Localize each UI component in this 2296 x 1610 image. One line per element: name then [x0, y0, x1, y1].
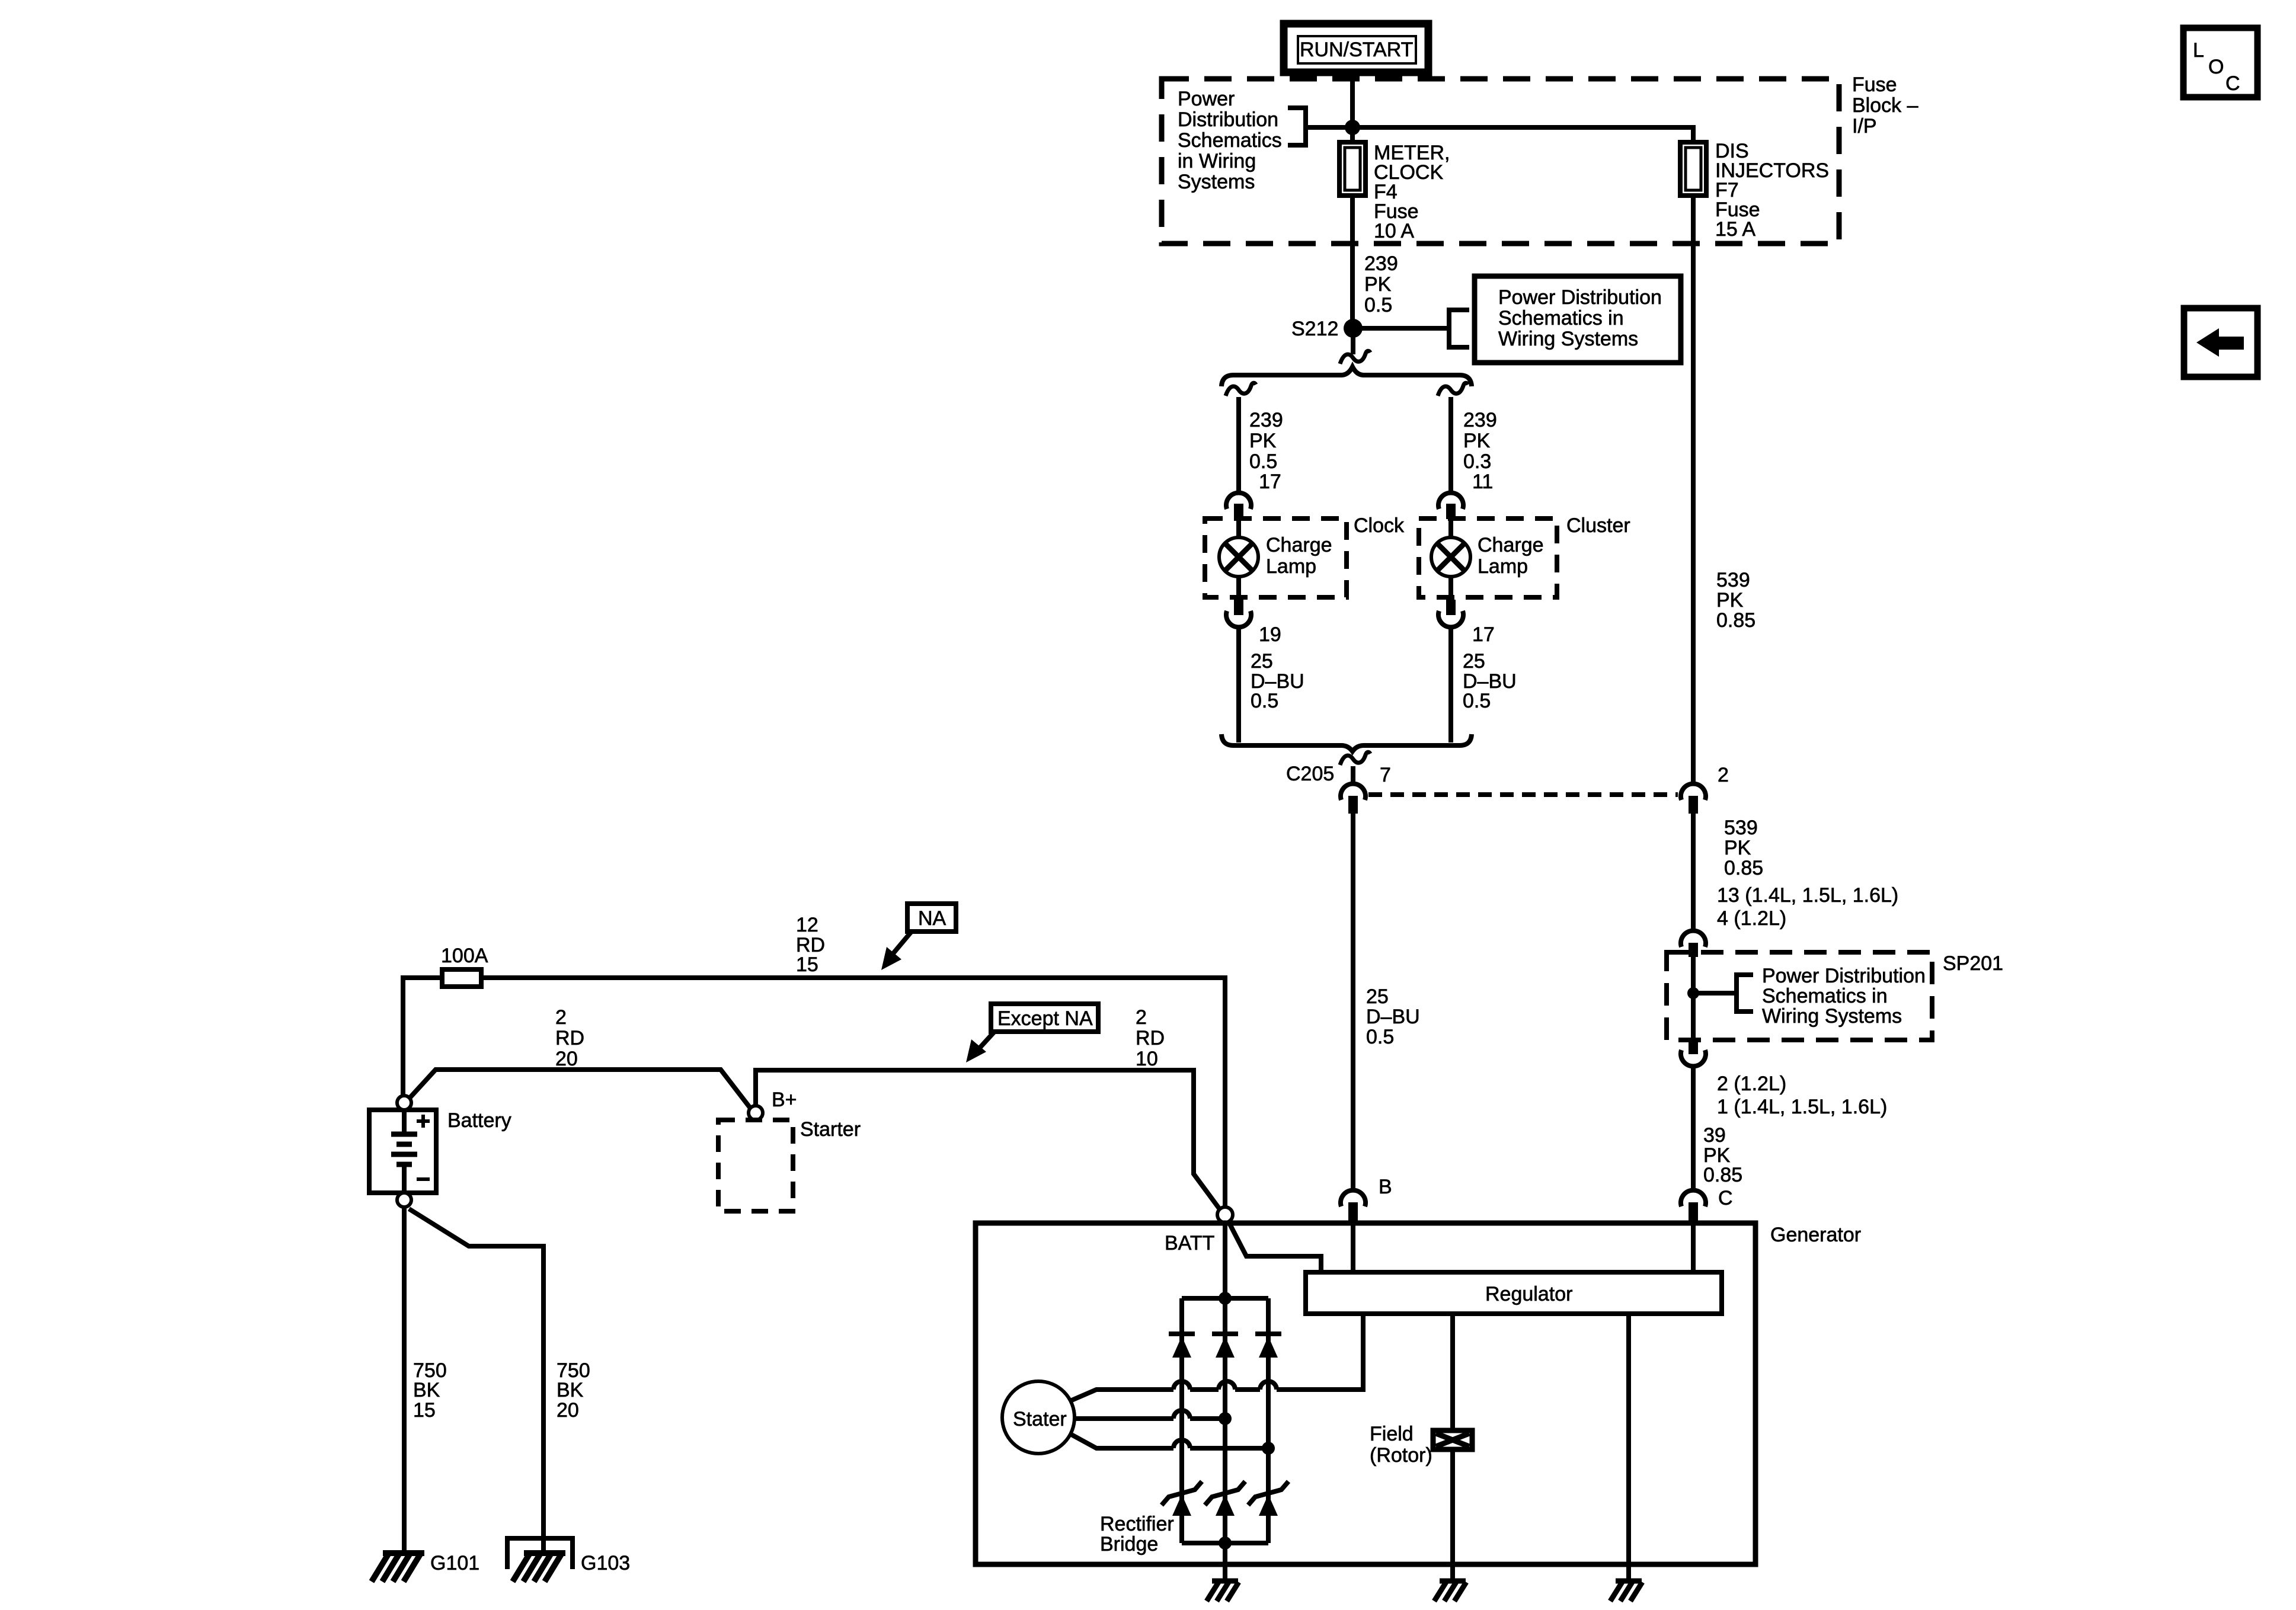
wire BATT to rectifier bridge	[1223, 1222, 1227, 1298]
connector half circle above clock lamp	[1226, 493, 1251, 509]
reference text Power Distribution Schematics (SP201)	[1762, 965, 1926, 1028]
zener Z3	[1248, 1481, 1288, 1516]
svg-text:2: 2	[1136, 1006, 1147, 1029]
reference text Power Distribution Schematics (fuse block)	[1178, 88, 1282, 193]
rectifier bridge mid leg	[1223, 1298, 1227, 1543]
arrow Except NA	[966, 1032, 994, 1062]
stator phase 3 wire	[1070, 1434, 1268, 1448]
rectifier bridge left leg	[1179, 1298, 1184, 1543]
pin 19 clock	[1234, 600, 1243, 615]
svg-text:1 (1.4L, 1.5L, 1.6L): 1 (1.4L, 1.5L, 1.6L)	[1717, 1096, 1887, 1118]
wire label 239 PK 0.5	[1364, 252, 1398, 316]
svg-text:20: 20	[555, 1048, 578, 1070]
ground (regulator)	[1610, 1581, 1642, 1601]
svg-text:NA: NA	[918, 907, 946, 930]
wire label 19 25 D-BU 0.5 (clock)	[1251, 623, 1304, 712]
splice node S212	[1344, 319, 1363, 338]
label Charge Lamp (clock)	[1266, 534, 1332, 578]
battery negative terminal	[397, 1193, 411, 1207]
svg-text:G103: G103	[581, 1552, 630, 1574]
svg-text:239: 239	[1463, 409, 1497, 431]
wire F4 to S212	[1350, 196, 1355, 325]
svg-text:15: 15	[413, 1399, 436, 1422]
junction node phase 2	[1219, 1412, 1232, 1425]
zener Z2	[1205, 1481, 1245, 1516]
fuse F7 DIS INJECTORS 15A	[1680, 142, 1706, 196]
wire label 239 PK 0.3 11 (cluster)	[1463, 409, 1497, 493]
locator box LOC	[2183, 28, 2257, 97]
wire B pin to regulator	[1351, 1223, 1355, 1272]
flag box NA	[907, 904, 956, 932]
reference bracket (S212)	[1449, 310, 1469, 347]
wire clock lamp down	[1236, 577, 1241, 601]
svg-text:Stater: Stater	[1013, 1408, 1067, 1430]
wire label 750 BK 15	[413, 1359, 447, 1422]
svg-text:Wiring Systems: Wiring Systems	[1762, 1005, 1902, 1028]
connector half circle above SP201	[1681, 931, 1706, 947]
svg-text:19: 19	[1259, 623, 1281, 646]
svg-text:0.5: 0.5	[1366, 1026, 1394, 1048]
svg-text:Starter: Starter	[800, 1118, 861, 1141]
SP201 dashed box	[1667, 952, 1932, 1040]
wire S212 down	[1351, 335, 1355, 354]
svg-text:B: B	[1379, 1176, 1392, 1198]
label Fuse Block I/P	[1852, 73, 1918, 137]
wire 2 RD 10 starter to generator	[756, 1070, 1220, 1210]
svg-text:2: 2	[1718, 764, 1729, 786]
svg-text:in Wiring: in Wiring	[1178, 150, 1256, 172]
wire pin to cluster lamp	[1448, 519, 1453, 539]
reference box Power Distribution Schematics (S212)	[1475, 276, 1681, 363]
connector C205 half circle pin 7	[1341, 784, 1366, 800]
label Rectifier Bridge	[1100, 1513, 1174, 1555]
hop arc phase 2	[1173, 1410, 1190, 1419]
wire C pin to regulator	[1691, 1223, 1696, 1272]
svg-text:0.5: 0.5	[1463, 690, 1491, 712]
svg-text:Generator: Generator	[1770, 1224, 1861, 1246]
svg-text:PK: PK	[1463, 430, 1491, 452]
svg-text:Charge: Charge	[1478, 534, 1544, 556]
battery positive terminal	[397, 1096, 411, 1110]
splice break symbol right branch top	[1438, 383, 1468, 396]
svg-text:Field: Field	[1370, 1423, 1414, 1445]
wire regulator to ground right	[1626, 1314, 1631, 1581]
pin 17 cluster	[1446, 600, 1456, 615]
svg-text:PK: PK	[1716, 589, 1744, 612]
pin 11 cluster	[1446, 504, 1456, 519]
wire label 17 25 D-BU 0.5 (cluster)	[1463, 623, 1517, 712]
pin stub below SP201	[1689, 1040, 1698, 1054]
svg-text:Fuse: Fuse	[1852, 73, 1897, 96]
svg-text:BK: BK	[557, 1379, 584, 1401]
generator box	[976, 1223, 1755, 1564]
svg-text:17: 17	[1259, 470, 1281, 493]
wire left branch to clock lamp	[1236, 397, 1241, 491]
svg-text:Power Distribution: Power Distribution	[1498, 286, 1662, 309]
wire clock lamp to C205 brace	[1236, 628, 1241, 742]
svg-text:239: 239	[1364, 252, 1398, 275]
svg-text:13 (1.4L, 1.5L, 1.6L): 13 (1.4L, 1.5L, 1.6L)	[1717, 884, 1898, 907]
stator phase 2 wire	[1075, 1416, 1225, 1421]
flag box Except NA	[991, 1004, 1098, 1032]
wire battery to G101	[402, 1207, 407, 1553]
zener Z1	[1162, 1481, 1202, 1516]
svg-text:Rectifier: Rectifier	[1100, 1513, 1174, 1535]
pin 2 stub	[1689, 796, 1698, 814]
svg-text:L: L	[2193, 39, 2204, 62]
svg-text:O: O	[2208, 56, 2224, 78]
connector half circle below cluster lamp	[1438, 611, 1463, 627]
hop arc phase 3	[1173, 1440, 1190, 1448]
stator phase 1 wire to regulator	[1070, 1314, 1363, 1401]
wire label 13 / 4 pins	[1717, 884, 1898, 930]
splice node SP201	[1687, 987, 1699, 999]
wire pin to clock lamp	[1236, 519, 1241, 539]
clock charge lamp	[1219, 537, 1258, 577]
svg-text:25: 25	[1251, 650, 1273, 673]
wire label 39 PK 0.85	[1703, 1124, 1742, 1186]
reference bracket (fuse block)	[1288, 108, 1352, 145]
pin 17 clock	[1234, 504, 1243, 519]
svg-text:Cluster: Cluster	[1566, 514, 1630, 537]
wire F7 to connector 2	[1691, 196, 1696, 783]
svg-text:C: C	[2225, 72, 2240, 95]
junction node S-fuseblock	[1345, 120, 1360, 135]
svg-text:RD: RD	[555, 1027, 584, 1049]
fuse 100A	[442, 969, 481, 987]
wire label 539 PK 0.85 (upper)	[1716, 569, 1755, 632]
svg-text:12: 12	[796, 914, 818, 936]
svg-text:2: 2	[555, 1006, 567, 1029]
wire label 2 RD 20	[555, 1006, 584, 1070]
svg-text:G101: G101	[430, 1552, 479, 1574]
starter B+ terminal	[749, 1106, 763, 1120]
wire bridge to ground	[1223, 1543, 1227, 1581]
wire battery to G103	[409, 1209, 543, 1553]
splice break symbol at C205	[1340, 752, 1370, 765]
ground (field)	[1434, 1581, 1466, 1601]
svg-text:Wiring Systems: Wiring Systems	[1498, 328, 1638, 350]
rectifier bridge right leg	[1266, 1298, 1271, 1543]
svg-text:RUN/START: RUN/START	[1300, 39, 1413, 61]
junction node bridge top	[1219, 1292, 1232, 1305]
svg-text:0.85: 0.85	[1703, 1164, 1742, 1186]
svg-text:Block –: Block –	[1852, 94, 1918, 117]
arrow NA	[881, 932, 912, 970]
svg-text:S212: S212	[1291, 318, 1338, 340]
connector half circle below SP201	[1681, 1050, 1706, 1066]
diode D2	[1212, 1334, 1238, 1358]
bottom collection brace	[1221, 734, 1472, 751]
wire label 539 PK 0.85 (lower)	[1724, 817, 1763, 879]
svg-text:Bridge: Bridge	[1100, 1533, 1158, 1555]
svg-text:C: C	[1718, 1187, 1733, 1209]
wire label 239 PK 0.5 17 (clock)	[1249, 409, 1283, 493]
starter dashed box	[718, 1120, 793, 1211]
wire brace to C205 connector	[1351, 766, 1355, 783]
junction node bridge bottom	[1219, 1537, 1232, 1550]
cluster dashed box	[1419, 518, 1557, 597]
wire SP201 to generator C	[1691, 1067, 1696, 1189]
svg-text:11: 11	[1472, 470, 1493, 493]
svg-text:Power Distribution: Power Distribution	[1762, 965, 1926, 987]
ground (bridge)	[1207, 1581, 1239, 1601]
connector half circle pin 2	[1681, 784, 1706, 800]
svg-text:B+: B+	[772, 1089, 797, 1111]
reference bracket (SP201)	[1737, 975, 1753, 1012]
svg-text:PK: PK	[1724, 837, 1751, 859]
svg-text:(Rotor): (Rotor)	[1370, 1444, 1432, 1467]
svg-text:0.5: 0.5	[1249, 450, 1277, 473]
pin B stub	[1348, 1202, 1358, 1223]
svg-text:2 (1.2L): 2 (1.2L)	[1717, 1073, 1786, 1095]
regulator box	[1306, 1272, 1722, 1314]
svg-text:0.5: 0.5	[1364, 294, 1392, 316]
wire RUN/START to fuse F4	[1350, 72, 1355, 145]
svg-text:Distribution: Distribution	[1178, 108, 1278, 131]
svg-text:15 A: 15 A	[1715, 218, 1755, 241]
svg-text:PK: PK	[1249, 430, 1277, 452]
wire label 2 RD 10	[1136, 1006, 1165, 1070]
field rotor coil	[1433, 1430, 1472, 1449]
svg-text:PK: PK	[1364, 273, 1392, 296]
wire S212 to reference bracket	[1353, 326, 1449, 331]
svg-text:RD: RD	[1136, 1027, 1165, 1049]
generator BATT terminal	[1217, 1207, 1233, 1222]
label Field (Rotor)	[1370, 1423, 1432, 1467]
label fuse F7	[1715, 140, 1829, 241]
rectifier bridge bottom rail	[1182, 1541, 1268, 1545]
C205 in-line connector dashed wire	[1368, 792, 1678, 797]
splice break symbol left branch top	[1226, 383, 1256, 396]
wire cluster lamp to C205 brace	[1448, 628, 1453, 742]
svg-text:7: 7	[1380, 764, 1391, 786]
svg-text:4 (1.2L): 4 (1.2L)	[1717, 907, 1786, 930]
svg-text:Clock: Clock	[1354, 514, 1405, 537]
svg-text:SP201: SP201	[1943, 952, 2003, 975]
svg-text:I/P: I/P	[1852, 115, 1877, 137]
wire label 25 D-BU 0.5 (B circuit)	[1366, 985, 1420, 1048]
splice break symbol below S212	[1340, 351, 1370, 364]
switch feed box RUN/START	[1284, 24, 1428, 72]
svg-text:Battery: Battery	[447, 1109, 511, 1132]
wire SP201 node to bracket	[1693, 991, 1737, 996]
svg-text:Schematics in: Schematics in	[1498, 307, 1624, 329]
svg-text:Schematics in: Schematics in	[1762, 985, 1888, 1007]
svg-text:Schematics: Schematics	[1178, 129, 1282, 152]
svg-text:239: 239	[1249, 409, 1283, 431]
svg-text:539: 539	[1724, 817, 1758, 839]
wire label 12 RD 15	[796, 914, 825, 976]
svg-text:100A: 100A	[441, 945, 488, 967]
back arrow box	[2184, 308, 2257, 377]
svg-text:Power: Power	[1178, 88, 1235, 110]
connector half circle above cluster lamp	[1438, 493, 1463, 509]
svg-text:0.85: 0.85	[1724, 857, 1763, 879]
pin 7 stub	[1348, 796, 1358, 814]
stator circle	[1002, 1381, 1075, 1454]
svg-text:10: 10	[1136, 1048, 1158, 1070]
svg-text:BATT: BATT	[1165, 1232, 1214, 1254]
pin stub above SP201	[1689, 943, 1698, 957]
wire B circuit down	[1351, 814, 1355, 1189]
svg-text:17: 17	[1472, 623, 1495, 646]
clock dashed box	[1205, 518, 1347, 597]
wire label 2 / 1 pins	[1717, 1073, 1887, 1118]
fuse block dashed box	[1162, 79, 1839, 244]
svg-text:C205: C205	[1286, 763, 1334, 785]
svg-text:D–BU: D–BU	[1366, 1006, 1420, 1028]
wire cluster lamp down	[1448, 577, 1453, 601]
top distribution brace	[1221, 367, 1472, 386]
wire regulator to field	[1450, 1314, 1455, 1581]
svg-text:Charge: Charge	[1266, 534, 1332, 556]
rectifier bridge top rail	[1182, 1296, 1268, 1301]
connector half circle pin C	[1681, 1190, 1706, 1206]
hop arcs phase 1	[1173, 1381, 1277, 1390]
svg-text:15: 15	[796, 953, 818, 976]
pin C stub	[1689, 1202, 1698, 1223]
connector half circle pin B	[1341, 1190, 1366, 1206]
svg-text:539: 539	[1716, 569, 1750, 591]
wire 2 RD 20 battery to starter	[410, 1070, 750, 1108]
fuse F4 METER CLOCK 10A	[1339, 142, 1366, 196]
svg-text:10 A: 10 A	[1374, 220, 1414, 242]
diode D3	[1255, 1334, 1281, 1358]
ground G101	[372, 1553, 424, 1582]
diode D1	[1169, 1334, 1195, 1358]
label fuse F4	[1374, 142, 1450, 242]
svg-text:Systems: Systems	[1178, 171, 1255, 193]
ground G103	[513, 1553, 565, 1582]
label Charge Lamp (cluster)	[1478, 534, 1544, 578]
svg-text:Lamp: Lamp	[1478, 555, 1528, 578]
battery	[369, 1110, 436, 1193]
svg-text:25: 25	[1366, 985, 1389, 1008]
junction node phase 3	[1262, 1442, 1275, 1455]
wire to fuse F7	[1352, 127, 1693, 145]
wire inside SP201	[1691, 956, 1696, 1039]
wire BATT to regulator	[1228, 1221, 1321, 1272]
wire label 750 BK 20	[557, 1359, 590, 1422]
ground G103 case	[507, 1538, 573, 1569]
svg-text:39: 39	[1703, 1124, 1726, 1147]
cluster charge lamp	[1431, 537, 1470, 577]
wire 12 RD 15 main feed	[403, 978, 1225, 1206]
svg-text:Lamp: Lamp	[1266, 555, 1316, 578]
svg-text:20: 20	[557, 1399, 579, 1422]
connector half circle below clock lamp	[1226, 611, 1251, 627]
wire pin 2 to SP201	[1691, 814, 1696, 930]
svg-text:0.85: 0.85	[1716, 609, 1755, 632]
svg-text:0.5: 0.5	[1251, 690, 1278, 712]
svg-text:25: 25	[1463, 650, 1485, 673]
svg-text:0.3: 0.3	[1463, 450, 1491, 473]
svg-text:BK: BK	[413, 1379, 440, 1401]
svg-text:Regulator: Regulator	[1485, 1283, 1572, 1305]
wire right branch to cluster lamp	[1448, 397, 1453, 491]
svg-text:Except NA: Except NA	[997, 1007, 1093, 1030]
